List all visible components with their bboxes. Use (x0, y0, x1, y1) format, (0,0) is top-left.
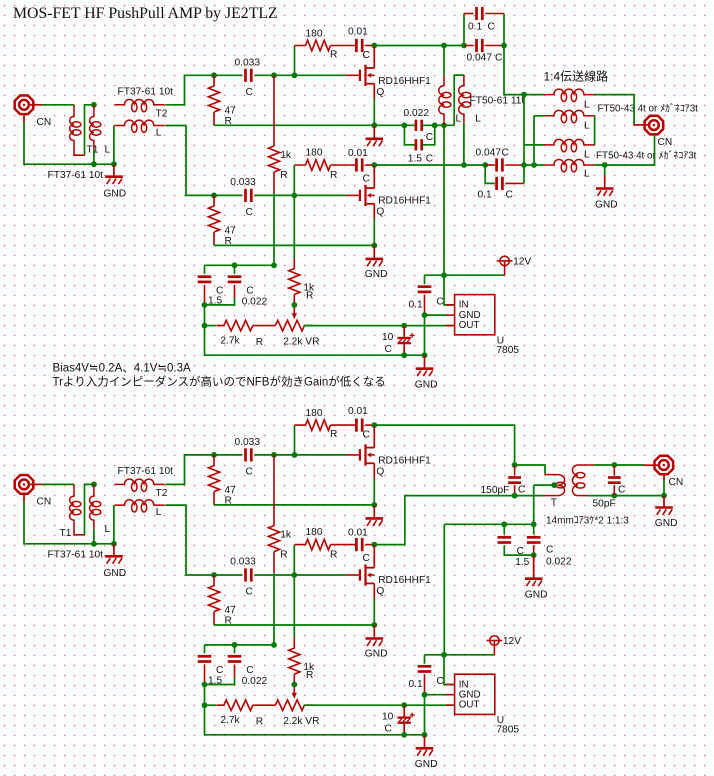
wire OUT pin stub b (446, 704, 455, 706)
svg-text:R: R (330, 549, 337, 560)
junction 50pF top (611, 462, 617, 468)
ground symbol FET2 a (366, 245, 384, 266)
wire 1k bias2 top green b (293, 575, 295, 638)
svg-text:C: C (246, 87, 253, 98)
svg-text:FT50-43 4t or ﾒｶﾞﾈｺｱ3t: FT50-43 4t or ﾒｶﾞﾈｺｱ3t (598, 103, 699, 115)
wire source2 green b (373, 599, 375, 625)
wire T secondary bottom lead (578, 495, 588, 497)
label 47 row1 b (225, 485, 237, 496)
wire T1a secondary to ground rail (93, 150, 95, 165)
wire line2-3 right link (594, 116, 596, 145)
svg-text:C: C (246, 466, 253, 477)
wire IN pin stub b (446, 684, 455, 686)
svg-text:R: R (280, 549, 287, 560)
label 0.047 C series (467, 52, 493, 63)
label C 0.01 row2 b (363, 553, 370, 564)
wire 1k bias2 top green a (293, 195, 295, 258)
label OUT b (459, 700, 480, 711)
junction gate row1 a at R47 (211, 72, 217, 78)
capacitor 150pF (508, 478, 521, 483)
svg-text:47: 47 (225, 225, 237, 236)
wire R47 row2 b bottom (213, 612, 215, 625)
junction output cap left (441, 43, 447, 49)
junction gate row2 a at feedback (291, 193, 297, 199)
connector CN (output a) (645, 116, 664, 135)
junction gate row1 b at R1k (271, 452, 277, 458)
label C 1.5 a (216, 286, 223, 297)
wire cap 1.5 bottom lead a (204, 285, 206, 305)
junction caps bottom b (202, 682, 208, 688)
junction ground rail at T2b (111, 541, 117, 547)
resistor 1k bias2 b (289, 638, 300, 675)
wire 1k bias1 bottom green a (273, 193, 275, 265)
svg-text:GND: GND (525, 589, 548, 600)
wire cap 1.5R bottom (504, 545, 533, 555)
wire cap 0.022R bottom (533, 545, 535, 555)
label CN (input a) (37, 117, 52, 128)
wire GND pin stub a (446, 314, 455, 316)
wire source row b (214, 504, 374, 506)
wire between 2.7k and 2.2k b (253, 704, 276, 706)
label OUT a (459, 320, 480, 331)
wire 0.1-2 loop left (485, 165, 495, 183)
label 1.5 b (208, 675, 222, 686)
wire 180 to 0.01 row2 a (331, 164, 356, 166)
svg-text:0.022: 0.022 (242, 297, 268, 308)
svg-text:7805: 7805 (496, 345, 519, 356)
resistor 2.7k b (216, 700, 253, 711)
wire 0.1 loop left lead (464, 13, 474, 15)
wire 0.1 top lead b (424, 655, 426, 664)
svg-text:GND: GND (655, 518, 678, 529)
wire T2b upper to gate row 1 (165, 455, 214, 485)
wire gate row1 b segment2 (254, 454, 346, 456)
capacitor 0.047 lower series (497, 158, 503, 171)
wire source2 red b (373, 583, 375, 598)
label 0.1 parallel (468, 21, 482, 32)
transformer T2b lower winding (115, 500, 165, 512)
svg-text:Q: Q (376, 586, 384, 597)
wire source1 red a (373, 84, 375, 99)
wire CN4 pin stub bottom (663, 475, 665, 480)
junction ground rail at T1a (91, 161, 97, 167)
svg-text:C: C (495, 52, 502, 63)
label U b (497, 715, 504, 726)
junction electrolytic bottom b (401, 732, 407, 738)
svg-text:T1: T1 (60, 528, 72, 539)
wire gate row1 a segment (214, 74, 243, 76)
wire 0.01 to drain row2 a (365, 164, 374, 166)
svg-text:L: L (456, 113, 462, 124)
wire cap 0.022 bottom lead b (234, 664, 236, 677)
junction CN b gnd (661, 493, 667, 499)
wire T tap down (533, 485, 535, 524)
svg-text:OUT: OUT (459, 700, 480, 711)
label L line3 (584, 150, 590, 161)
svg-text:0.033: 0.033 (230, 557, 256, 568)
svg-text:180: 180 (306, 147, 323, 158)
transistor Q RD16HHF1 lower a (346, 185, 374, 206)
label C 1.5 b (216, 665, 223, 676)
junction gate row2 b at feedback (291, 572, 297, 578)
regulator U 7805 box a (455, 295, 495, 335)
wire T2a lower to gate row 2 (165, 126, 214, 196)
svg-text:RD16HHF1: RD16HHF1 (378, 575, 431, 586)
capacitor 0.022 shunt a (416, 120, 422, 131)
wire between 2.7k and 2.2k a (253, 325, 276, 327)
capacitor 0.1 decouple a (418, 287, 432, 292)
wire T1b secondary to ground rail (93, 529, 95, 544)
VR wiper arrowhead b (292, 693, 297, 699)
resistor 1k bias2 a (289, 258, 300, 295)
svg-text:CN: CN (37, 497, 52, 508)
wire caps to VR row a (204, 305, 206, 326)
ground symbol bias caps (525, 555, 543, 586)
label GND FET2 a (365, 269, 388, 280)
svg-text:L: L (105, 144, 111, 155)
junction gate row1 b at R47 (211, 452, 217, 458)
wire 0.1 gnd vertical a (424, 315, 426, 355)
wire 12V stem a (504, 261, 506, 275)
wire T2a upper to gate row 1 (165, 75, 214, 105)
label 12V b (503, 636, 521, 647)
svg-text:Q: Q (376, 467, 384, 478)
ground symbol output b (655, 496, 673, 515)
label 0.01 row2 b (348, 527, 368, 538)
capacitor 0.01 row2 a (356, 158, 362, 171)
svg-text:150pF: 150pF (481, 485, 510, 496)
svg-text:1:4伝送線路: 1:4伝送線路 (544, 68, 609, 83)
wire T1b primary bottom hook (74, 529, 85, 535)
wire VR bottom return b (205, 705, 425, 735)
junction 12V rail b (441, 652, 447, 658)
label Q lower b (376, 586, 384, 597)
resistor 180 row2 a (295, 160, 331, 171)
label 14mm core (546, 515, 629, 527)
junction VR row electrolytic a (401, 323, 407, 329)
svg-text:C: C (363, 553, 370, 564)
wire line2 left (534, 115, 544, 117)
wire cap 0.022 bottom lead a (234, 285, 236, 298)
wire IN pin a (444, 275, 455, 305)
wire T2b upper left lead (113, 505, 115, 544)
power symbol 12V b (487, 636, 503, 645)
label 180 row1 a (306, 28, 323, 39)
inductor L line2 (544, 110, 595, 122)
label 50pF (593, 498, 616, 509)
svg-text:FT50-43 4t or ﾒｶﾞﾈｺｱ3t: FT50-43 4t or ﾒｶﾞﾈｺｱ3t (596, 150, 697, 162)
junction drain node2 a (371, 162, 377, 168)
wire VR row left lead a (205, 325, 217, 327)
wire shunt loop right a (422, 125, 434, 145)
label 0.033 row1 b (235, 437, 261, 448)
wire 12V rail b (425, 654, 495, 656)
label C 0.1 a (436, 297, 443, 308)
label 150pF (481, 485, 510, 496)
wire to balun input (504, 46, 544, 95)
label 7805 b (496, 725, 519, 736)
junction VR row electrolytic b (401, 702, 407, 708)
label 0.1 b (409, 679, 423, 690)
svg-text:C: C (506, 189, 513, 200)
ground symbol FET2 b (366, 625, 384, 646)
svg-text:0.1: 0.1 (409, 679, 423, 690)
svg-text:CN: CN (658, 137, 673, 148)
capacitor 0.01 row2 b (356, 538, 362, 551)
wire cap 0.022 top lead b (234, 645, 236, 654)
svg-text:180: 180 (306, 527, 323, 538)
label 10 b (382, 711, 394, 722)
svg-text:0.033: 0.033 (235, 57, 261, 68)
svg-text:0.1: 0.1 (409, 300, 423, 311)
transformer T secondary winding (572, 465, 584, 496)
svg-text:R: R (306, 670, 313, 681)
label L line4 (584, 168, 590, 179)
svg-text:MOS-FET HF PushPull AMP by JE: MOS-FET HF PushPull AMP by JE2TLZ (13, 5, 278, 22)
svg-text:1k: 1k (280, 150, 292, 161)
svg-text:OUT: OUT (459, 320, 480, 331)
inductor L line3 (544, 139, 595, 151)
wire 1k bias1 bottom b (273, 552, 275, 573)
wire T2b lower to gate row 2 (165, 505, 214, 575)
label Q upper a (376, 87, 384, 98)
junction 0.1 bottom b (422, 692, 428, 698)
wire feedback row2 b vertical (293, 545, 295, 575)
label 180 row2 a (306, 147, 323, 158)
wire cap 1.5 top lead b (204, 645, 206, 654)
wire CNb pin stub bottom (23, 493, 25, 502)
wire CNb ground return (24, 502, 114, 544)
junction cap row 0.022 a (232, 262, 238, 268)
text bias annotation 2 (53, 374, 386, 388)
junction 12V rail a (441, 272, 447, 278)
capacitor 0.033 row1 b (246, 448, 252, 461)
label C 0.033 row1 b (246, 466, 253, 477)
label 0.01 row2 a (348, 148, 368, 159)
svg-text:0.033: 0.033 (235, 437, 261, 448)
junction gate row1 b at feedback (292, 452, 298, 458)
svg-text:180: 180 (306, 28, 323, 39)
svg-text:1.5: 1.5 (208, 296, 222, 307)
wire T1a link vertical (85, 105, 94, 155)
svg-text:L: L (475, 113, 481, 124)
junction VR row left b (202, 702, 208, 708)
label 0.033 row2 b (230, 557, 256, 568)
transformer FT50-61 left winding (439, 76, 451, 126)
wire 0.1 loop left (463, 14, 465, 46)
capacitor 0.1 decouple b (418, 666, 432, 671)
resistor 180 row2 b (295, 539, 331, 550)
resistor 2.7k a (216, 320, 253, 331)
capacitor 1.5 shunt a (416, 139, 422, 150)
junction output gnd (602, 162, 608, 168)
junction 150pF bottom (512, 493, 518, 499)
wire cap 1.5 bottom lead b (204, 664, 206, 684)
svg-text:0.022: 0.022 (546, 557, 572, 568)
transistor Q RD16HHF1 lower b (346, 564, 374, 585)
capacitor 0.033 row1 a (246, 69, 252, 82)
svg-text:FT37-61 10t: FT37-61 10t (48, 549, 104, 560)
capacitor 0.022 bias (527, 537, 541, 542)
label L FT50-61 left (456, 113, 462, 124)
svg-text:2.2k VR: 2.2k VR (283, 716, 319, 727)
svg-text:R: R (280, 170, 287, 181)
capacitor 0.022 a (228, 277, 242, 282)
label C 0.022 bias (546, 545, 553, 556)
transformer T primary winding (556, 475, 566, 496)
resistor 2.2k VR b (275, 700, 313, 711)
label FT50-61 11t (470, 95, 525, 106)
wire VR row to regulator a (304, 325, 455, 327)
wire 180 to 0.01 row1 a (331, 45, 356, 47)
label 0.1 lower (478, 189, 492, 200)
wire 1k bias1 top a (273, 75, 275, 146)
label 10 a (382, 332, 394, 343)
svg-text:0.1: 0.1 (468, 21, 482, 32)
label CN output b (669, 477, 684, 488)
svg-text:0.022: 0.022 (404, 108, 430, 119)
svg-text:2.7k: 2.7k (220, 715, 240, 726)
resistor 47 row2 a (208, 195, 219, 232)
junction 0.047-2 left (482, 162, 488, 168)
svg-text:GND: GND (415, 759, 438, 770)
svg-text:C: C (517, 546, 524, 557)
svg-text:C: C (426, 132, 433, 143)
wire 12V feed vertical (443, 125, 445, 275)
junction gate row2 a at R47 (211, 193, 217, 199)
svg-text:L: L (584, 150, 590, 161)
svg-text:47: 47 (225, 485, 237, 496)
label GND bias (525, 589, 548, 600)
wire R47 row1 a bottom (213, 112, 215, 125)
resistor 180 row1 a (295, 40, 331, 51)
svg-text:Trより入力インピーダンスが高いのでNFBが効きGainが低: Trより入力インピーダンスが高いのでNFBが効きGainが低くなる (53, 374, 386, 388)
junction T1b secondary top (91, 482, 97, 488)
label 0.022 shunt a (404, 108, 430, 119)
label GND regulator b (415, 759, 438, 770)
label C 0.01 row1 a (363, 50, 370, 61)
label 1:4 transmission line (544, 68, 609, 83)
label 2.7k b (220, 715, 240, 726)
label 180 row1 b (306, 408, 323, 419)
svg-text:C: C (618, 484, 625, 495)
transformer T2b upper winding (115, 479, 165, 491)
label RD16HHF1 upper b (378, 456, 431, 467)
svg-text:L: L (584, 121, 590, 132)
wire 150pF bottom lead (514, 485, 516, 496)
wire bias gnd stem (533, 555, 535, 577)
wire CNa to T1 primary (42, 104, 74, 106)
label 1.5 bias (515, 557, 529, 568)
junction output row left (461, 162, 467, 168)
svg-text:GND: GND (104, 189, 127, 200)
wire gate row2 b segment2 (254, 574, 346, 576)
wire source row2 b (214, 624, 374, 626)
wire drain2 b (373, 545, 375, 568)
wire T sec bottom to 50pF (588, 495, 614, 497)
wire 0.1 bottom lead a (424, 295, 426, 316)
wire feedback row1 a vertical (294, 46, 296, 76)
svg-text:R: R (306, 291, 313, 302)
title text (13, 5, 278, 22)
junction gnd rail bottom b (422, 732, 428, 738)
label C 0.022 a (246, 286, 253, 297)
junction VR wiper top b (291, 682, 297, 688)
wire FT50-61 right top hook (454, 75, 464, 125)
label 0.1 a (409, 300, 423, 311)
label L FT50-61 right (475, 113, 481, 124)
label Q upper b (376, 467, 384, 478)
capacitor 0.047 series (477, 39, 483, 52)
label T1a (87, 144, 99, 155)
ground symbol regulator a (416, 355, 434, 376)
junction cap row right a (271, 262, 277, 268)
svg-text:C: C (363, 50, 370, 61)
resistor 1k bias1 b (268, 526, 279, 552)
wire cap row a (205, 264, 275, 266)
wire T2a upper left lead (113, 126, 115, 165)
wire source2 red a (373, 204, 375, 219)
label RD16HHF1 lower a (378, 196, 431, 207)
label 1k bias2 b (303, 662, 315, 673)
wire VR row to regulator b (304, 704, 455, 706)
wire 180 to 0.01 row1 b (331, 424, 356, 426)
label R 47 row2 a (225, 236, 232, 247)
junction 150pF top (512, 462, 518, 468)
label 0.01 row1 a (348, 26, 368, 37)
label 1k bias1 b (280, 530, 292, 541)
label 180 row2 b (306, 527, 323, 538)
label 0.01 row1 b (348, 406, 368, 417)
capacitor 10 electrolytic b (398, 705, 415, 735)
svg-text:R: R (330, 170, 337, 181)
junction source1 b (371, 502, 377, 508)
junction cap row right b (271, 642, 277, 648)
wire line1 to CN out (595, 95, 635, 125)
wire 0.01 to drain row1 b (365, 424, 374, 426)
svg-text:C: C (246, 207, 253, 218)
resistor 2.2k VR a (275, 320, 313, 331)
junction VR wiper top a (291, 302, 297, 308)
junction output row mid (521, 162, 527, 168)
label RD16HHF1 upper a (378, 76, 431, 87)
label C 0.1 lower (506, 189, 513, 200)
junction caps bottom a (202, 302, 208, 308)
capacitor 10 electrolytic a (398, 326, 415, 356)
label GND pin a (459, 310, 481, 321)
junction output loop left (461, 43, 467, 49)
svg-text:C: C (518, 484, 525, 495)
wire long vertical 524 (523, 95, 525, 184)
label R 1k bias1 a (280, 170, 287, 181)
label Q lower a (376, 207, 384, 218)
wire CNa ground return (24, 123, 114, 165)
svg-text:2.2k VR: 2.2k VR (283, 337, 319, 348)
wire 150pF top lead (514, 465, 516, 475)
svg-text:C: C (385, 724, 392, 735)
svg-text:R: R (330, 49, 337, 60)
ground symbol input a (105, 164, 123, 184)
wire caps to VR row b (204, 685, 206, 706)
svg-text:Q: Q (376, 87, 384, 98)
wire VR row left lead b (205, 704, 217, 706)
wire VR wiper a (293, 305, 295, 314)
label CN (input b) (37, 497, 52, 508)
wire CN4 pin stub left (644, 464, 659, 466)
label GND pin b (459, 689, 481, 700)
wire 1k bias2 bottom b (293, 674, 295, 684)
wire bias feed vertical (443, 524, 445, 655)
